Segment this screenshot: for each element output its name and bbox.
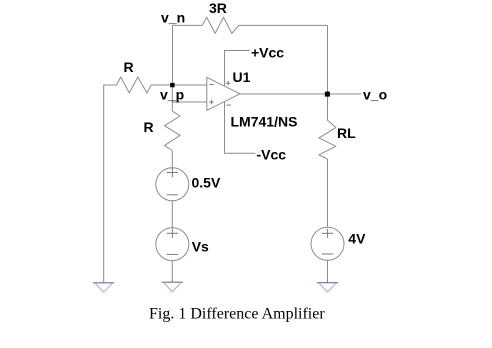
wire R to op-amp inverting input (151, 84, 207, 86)
wire node to RL (327, 94, 329, 120)
Vs source plus mark (167, 232, 178, 234)
svg-text:Fig. 1 Difference Amplifier: Fig. 1 Difference Amplifier (149, 305, 325, 322)
wire 3R left lead (173, 24, 203, 26)
op-amp V- power minus mark (226, 104, 231, 106)
wire 4V to ground (327, 260, 329, 282)
0.5V source plus mark (167, 172, 178, 174)
op-amp +Vcc pin lead (225, 51, 251, 87)
resistor 3R (202, 17, 238, 33)
svg-text:v_n: v_n (161, 10, 185, 26)
op-amp inverting input minus mark (209, 84, 214, 86)
svg-text:RL: RL (337, 125, 356, 141)
svg-text:R: R (124, 59, 134, 75)
resistor R left (117, 77, 152, 93)
4V source plus mark (322, 232, 333, 234)
svg-text:3R: 3R (209, 0, 227, 16)
ground 0 left (93, 283, 114, 292)
op-amp -Vcc pin lead (225, 102, 256, 154)
svg-text:v_o: v_o (363, 87, 387, 103)
wire v_p vertical (171, 85, 173, 111)
svg-text:R: R (144, 119, 154, 135)
0.5V source minus mark (167, 194, 178, 196)
wire RL to 4V (327, 159, 329, 227)
wire R to 0.5V source (171, 151, 173, 168)
svg-text:Vs: Vs (192, 239, 209, 255)
wire 3R right lead (239, 24, 328, 26)
svg-text:0.5V: 0.5V (192, 174, 221, 190)
node v_p junction dot (170, 83, 174, 87)
resistor R vertical (165, 111, 181, 150)
ground 0 middle (162, 282, 183, 292)
voltage source V2 4V circle (311, 227, 344, 260)
wire output (240, 93, 361, 95)
node v_o junction dot (325, 92, 330, 97)
wire v_n vertical (172, 25, 174, 85)
wire Vs to ground (171, 261, 173, 282)
svg-text:v_p: v_p (160, 86, 184, 102)
svg-text:LM741/NS: LM741/NS (231, 114, 298, 130)
op-amp V+ power plus mark (226, 82, 231, 84)
svg-text:-Vcc: -Vcc (257, 146, 287, 162)
wire v_p to op-amp noninverting input (172, 101, 207, 103)
wire right vertical to node (327, 25, 329, 94)
ground 0 right (317, 283, 338, 292)
op-amp noninverting input plus mark (209, 101, 214, 103)
svg-text:U1: U1 (233, 69, 251, 85)
wire 0.5V to Vs (171, 201, 173, 228)
4V source minus mark (322, 253, 333, 255)
voltage source Vs circle (156, 228, 189, 261)
svg-text:+Vcc: +Vcc (251, 44, 284, 60)
resistor RL (319, 120, 336, 159)
voltage source V1 0.5V circle (156, 168, 189, 201)
op-amp U1 triangle (207, 77, 240, 110)
wire R1 left corner lead (104, 85, 117, 283)
Vs source minus mark (167, 253, 178, 255)
svg-text:4V: 4V (348, 230, 366, 246)
